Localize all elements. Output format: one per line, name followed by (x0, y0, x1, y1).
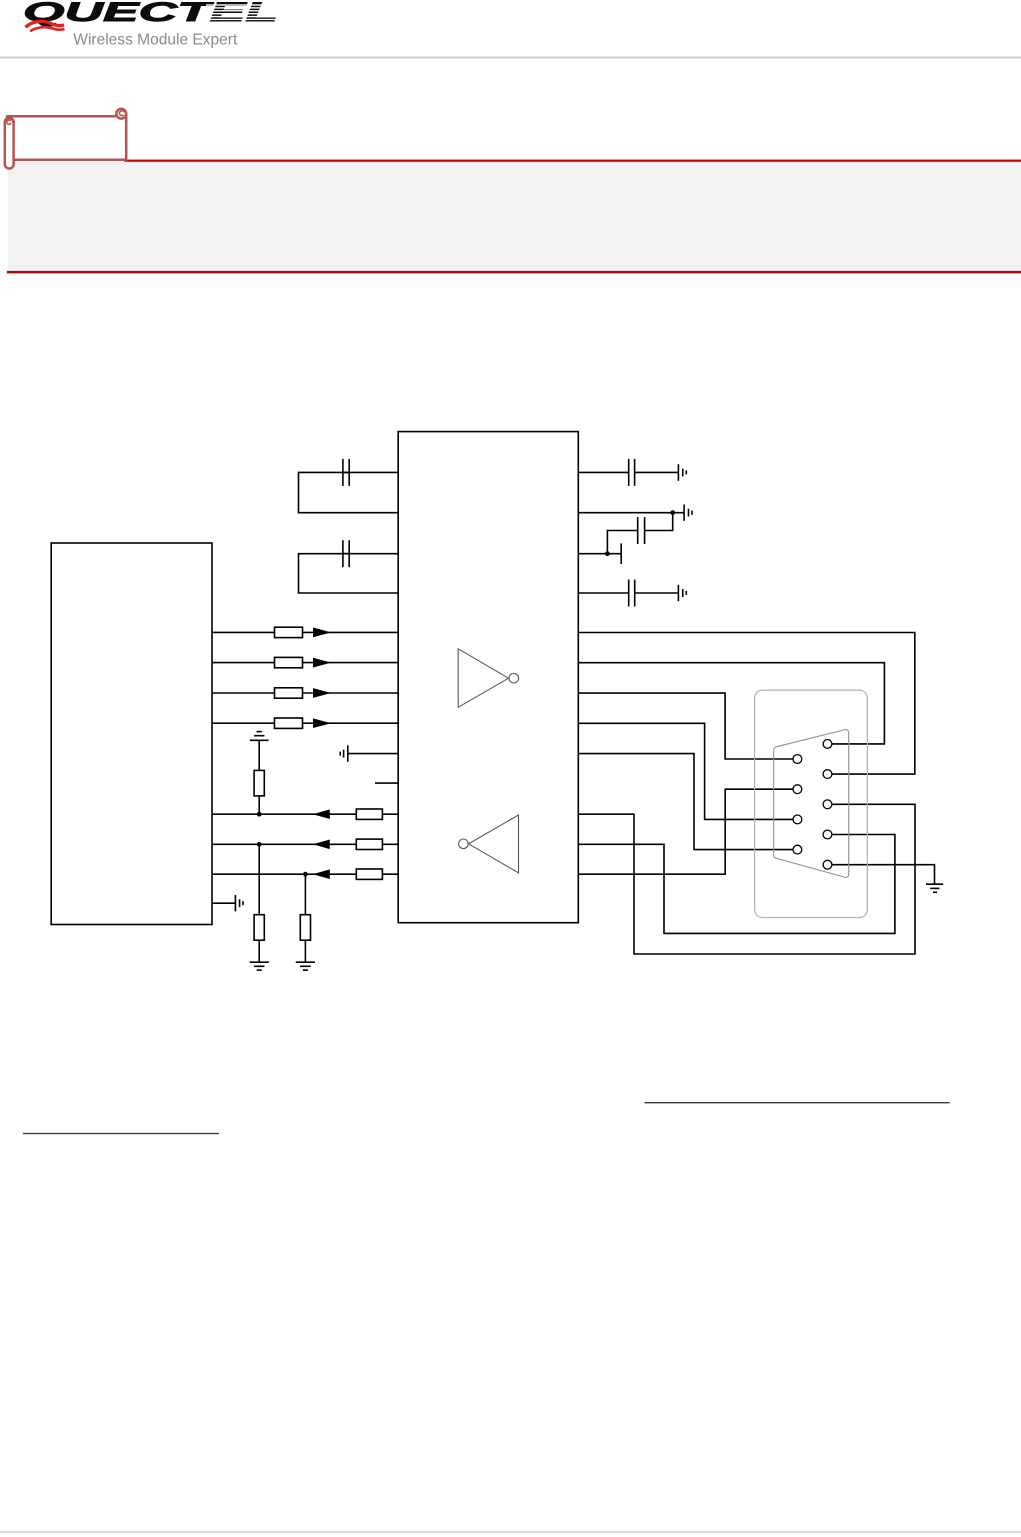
wire chip row2 right (578, 512, 684, 514)
capacitor C4 plates (644, 517, 646, 544)
wire net row6 to DB9 pin R1 (578, 663, 884, 744)
header rule (0, 57, 1021, 59)
ground (row1, sideways right) (677, 464, 679, 481)
pin 8 (793, 815, 802, 824)
pin 7 (793, 785, 802, 794)
resistor R6 (356, 809, 382, 819)
resistor R7 (356, 839, 382, 849)
logo stripe mask over EL (206, 0, 285, 20)
wire DB9 pin R5 to ground (832, 865, 935, 885)
DB9 pins (793, 740, 832, 870)
arrow TX2 (314, 659, 328, 667)
wire net row7 to DB9 pin L1 (578, 693, 793, 759)
node row2 junction (670, 510, 675, 515)
op-amp buffer T2 (receiver) (459, 815, 519, 873)
wire TX2 (212, 662, 275, 664)
wire net row12 to DB9 pin L2 (578, 789, 793, 874)
resistor R4 (275, 718, 303, 728)
wire R10 stem (304, 874, 306, 915)
capacitor C2 plates (342, 540, 344, 567)
wire chip row3 right (578, 553, 621, 555)
arrow RX1 (316, 810, 329, 818)
pin 3 (823, 800, 832, 809)
wire RX2 (212, 843, 398, 845)
wire row2 down to C4 (645, 513, 673, 531)
logo red swoosh (26, 21, 65, 31)
wire TX1 (212, 631, 275, 633)
wire R8 stem (258, 844, 260, 914)
bottom page rule (0, 1531, 1021, 1533)
wire net row9 to DB9 pin L4 (578, 754, 793, 850)
wire TX4 (212, 722, 275, 724)
section band bottom red line (7, 271, 1021, 274)
wire net row11 to DB9 pin R4 (578, 835, 895, 934)
footnote underline right (645, 1102, 950, 1103)
DB9 connector J1 outline (755, 690, 868, 917)
section band top red line (124, 160, 1021, 162)
inverted ground above pull resistor R5 (257, 731, 262, 733)
ground (row2, sideways right) (683, 505, 685, 521)
ground (row4, sideways right) (677, 585, 679, 601)
resistor R9 (356, 869, 382, 879)
resistor R1 (275, 627, 303, 637)
wire C4 to row3 (607, 531, 637, 554)
wire module ground stub (212, 902, 235, 904)
wire net row10 to DB9 pin R3 (578, 804, 915, 954)
wire: left flying-cap loop C1 top (299, 472, 399, 512)
arrow TX1 (314, 629, 328, 637)
resistor R8 (pulldown) (254, 915, 264, 941)
footnote underline left (23, 1133, 219, 1134)
node RX3/R10 junction (303, 872, 308, 877)
wire RX3 (212, 873, 398, 875)
capacitor C5 plate bar (620, 543, 622, 564)
pin 6 (793, 755, 802, 764)
arrow RX2 (316, 841, 329, 849)
op-amp buffer T1 (driver) (458, 649, 518, 708)
wire R10 to ground (304, 940, 306, 962)
wire net row5 to DB9 pin R2 (578, 633, 915, 775)
wire TX3 (212, 692, 275, 694)
resistor R3 (275, 688, 303, 698)
pin 5 (823, 860, 832, 869)
resistor R5 (vertical) (254, 770, 264, 796)
capacitor C3 plates (628, 459, 630, 486)
pin stub left of chip (375, 782, 398, 784)
arrow TX4 (314, 719, 328, 727)
ground (DB9 shell) (926, 883, 943, 885)
capacitor C6 plates (628, 580, 630, 607)
scroll tab (horizontal scroll shape) (5, 109, 126, 169)
transceiver chip U1 block (398, 432, 578, 923)
module block (left) (51, 543, 212, 925)
wire R8 to ground (258, 940, 260, 962)
wire net row8 to DB9 pin L3 (578, 723, 793, 819)
resistor R10 (pulldown) (300, 915, 310, 941)
pin 4 (823, 830, 832, 839)
arrow TX3 (314, 689, 328, 697)
ground under R10 (296, 961, 315, 963)
ground under R8 (250, 961, 269, 963)
pin 9 (793, 845, 802, 854)
resistor R2 (275, 657, 303, 667)
svg-text:Wireless Module Expert: Wireless Module Expert (73, 32, 238, 49)
section band gray background (8, 162, 1021, 270)
pin 2 (823, 770, 832, 779)
node RX1/R5 junction (257, 812, 262, 817)
wire chip GND pin row9 left (348, 753, 398, 755)
node RX2/R8 junction (257, 842, 262, 847)
node row3 junction (605, 551, 610, 556)
ground (module, sideways right) (234, 895, 236, 911)
wire chip row1 right (578, 471, 628, 473)
wire R5 top stem (258, 740, 260, 770)
wire: left flying-cap loop C2 top (299, 554, 399, 593)
DB9 face trapezoid (774, 730, 849, 878)
ground (chip left, sideways left) (347, 745, 349, 761)
capacitor C1 plates (342, 459, 344, 486)
wire RX1 (212, 813, 398, 815)
wire chip row4 right (578, 592, 628, 594)
pin 1 (823, 740, 832, 749)
arrow RX3 (316, 870, 329, 878)
wire R5 bottom stem (258, 796, 260, 814)
Quectel logo wordmark (23, 0, 278, 27)
